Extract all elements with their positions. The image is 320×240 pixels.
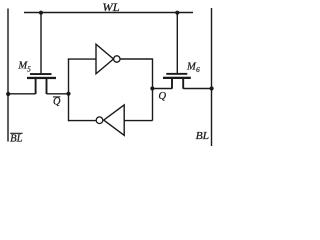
- junction dot WL / M5 gate: [39, 11, 43, 15]
- node Q junction dot: [150, 86, 154, 90]
- svg-text:WL: WL: [102, 0, 120, 14]
- junction dot WL / M6 gate: [175, 11, 179, 15]
- wire U1 output to node Q: [120, 58, 153, 60]
- svg-text:BL: BL: [196, 130, 210, 142]
- wire M5 gate to WL: [40, 13, 42, 74]
- wire inverter U2 output to node Q-bar: [69, 120, 97, 122]
- wire Q-bar to inverter U1 input: [68, 58, 96, 60]
- M5 label: [17, 60, 31, 73]
- junction dot on BL-bar rail: [6, 92, 10, 96]
- wire M6 drain to BL rail: [183, 88, 211, 90]
- wire node Q-bar vertical (left cross-couple bus): [68, 58, 70, 121]
- wire node Q to M6 source: [153, 88, 173, 90]
- wire BL-bar to M5 source: [8, 93, 36, 95]
- M6 label: [186, 61, 200, 74]
- BL-bar label: [10, 133, 23, 144]
- wire node Q vertical (right cross-couple bus): [152, 58, 154, 120]
- svg-text:BL: BL: [10, 134, 23, 145]
- wire BL rail (right vertical bit line): [211, 8, 213, 146]
- node Q-bar junction dot: [66, 92, 70, 96]
- svg-text:6: 6: [196, 65, 200, 74]
- wire WL (word line, horizontal top): [24, 12, 193, 14]
- wire M6 gate to WL: [176, 13, 178, 74]
- wire M5 drain to node Q-bar: [47, 93, 69, 95]
- inverter U2 (bottom, points left): [96, 105, 124, 135]
- svg-text:5: 5: [27, 64, 31, 73]
- node Q-bar label: [53, 97, 61, 108]
- svg-text:Q: Q: [53, 97, 61, 108]
- transistor M5 (access NMOS, left): [27, 73, 56, 94]
- svg-text:Q: Q: [158, 90, 166, 102]
- inverter U1 (top, points right): [96, 44, 120, 74]
- wire node Q to inverter U2 input: [124, 120, 152, 122]
- junction dot on BL rail: [210, 86, 214, 90]
- wire BL-bar rail (left vertical bit line): [7, 9, 9, 142]
- transistor M6 (access NMOS, right): [163, 73, 191, 89]
